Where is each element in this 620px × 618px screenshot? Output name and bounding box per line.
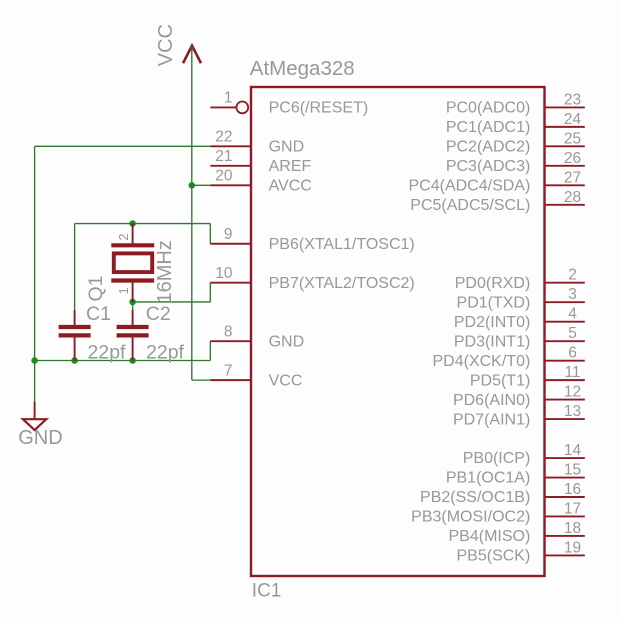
- svg-text:12: 12: [564, 384, 581, 401]
- svg-text:PD3(INT1): PD3(INT1): [454, 333, 530, 350]
- svg-text:27: 27: [564, 169, 581, 186]
- svg-text:Q1: Q1: [85, 275, 107, 301]
- svg-text:2: 2: [116, 233, 131, 240]
- svg-text:PC1(ADC1): PC1(ADC1): [446, 119, 530, 136]
- svg-text:AREF: AREF: [269, 158, 312, 175]
- svg-text:PD1(TXD): PD1(TXD): [457, 294, 531, 311]
- svg-text:3: 3: [568, 286, 577, 303]
- svg-text:8: 8: [224, 323, 233, 340]
- svg-text:VCC: VCC: [155, 24, 177, 66]
- svg-text:PB1(OC1A): PB1(OC1A): [446, 470, 530, 487]
- svg-text:PC5(ADC5/SCL): PC5(ADC5/SCL): [410, 197, 530, 214]
- svg-text:VCC: VCC: [269, 372, 303, 389]
- svg-text:PD4(XCK/T0): PD4(XCK/T0): [433, 353, 531, 370]
- svg-text:21: 21: [215, 148, 232, 165]
- svg-text:22pf: 22pf: [146, 341, 185, 363]
- svg-text:23: 23: [564, 91, 581, 108]
- svg-text:PB7(XTAL2/TOSC2): PB7(XTAL2/TOSC2): [269, 275, 415, 292]
- svg-text:C2: C2: [146, 303, 171, 325]
- svg-text:GND: GND: [269, 333, 305, 350]
- svg-text:6: 6: [568, 345, 577, 362]
- svg-text:PD5(T1): PD5(T1): [470, 372, 530, 389]
- svg-text:4: 4: [568, 306, 577, 323]
- svg-text:AVCC: AVCC: [269, 178, 312, 195]
- svg-text:PC6(/RESET): PC6(/RESET): [269, 100, 369, 117]
- svg-text:15: 15: [564, 462, 581, 479]
- svg-text:7: 7: [224, 362, 233, 379]
- svg-text:19: 19: [564, 539, 581, 556]
- svg-text:22pf: 22pf: [88, 341, 127, 363]
- svg-text:PB0(ICP): PB0(ICP): [463, 450, 531, 467]
- svg-text:22: 22: [215, 129, 232, 146]
- svg-text:PB5(SCK): PB5(SCK): [457, 548, 531, 565]
- svg-text:17: 17: [564, 500, 581, 517]
- svg-text:9: 9: [224, 226, 233, 243]
- svg-text:GND: GND: [269, 139, 305, 156]
- svg-text:PD6(AIN0): PD6(AIN0): [453, 392, 530, 409]
- svg-text:PC3(ADC3): PC3(ADC3): [446, 158, 530, 175]
- svg-text:PB3(MOSI/OC2): PB3(MOSI/OC2): [411, 509, 530, 526]
- svg-text:28: 28: [564, 189, 581, 206]
- svg-text:PB6(XTAL1/TOSC1): PB6(XTAL1/TOSC1): [269, 236, 415, 253]
- svg-text:PD7(AIN1): PD7(AIN1): [453, 411, 530, 428]
- svg-text:25: 25: [564, 130, 581, 147]
- svg-text:PB2(SS/OC1B): PB2(SS/OC1B): [420, 489, 530, 506]
- svg-text:11: 11: [564, 364, 580, 381]
- svg-text:5: 5: [568, 325, 577, 342]
- svg-text:PD2(INT0): PD2(INT0): [454, 314, 530, 331]
- svg-text:10: 10: [215, 265, 233, 282]
- svg-text:AtMega328: AtMega328: [250, 57, 355, 80]
- svg-text:1: 1: [116, 287, 131, 294]
- svg-text:24: 24: [564, 111, 582, 128]
- svg-text:14: 14: [564, 442, 582, 459]
- svg-text:PB4(MISO): PB4(MISO): [449, 528, 531, 545]
- svg-text:PC2(ADC2): PC2(ADC2): [446, 139, 530, 156]
- svg-text:16: 16: [564, 481, 581, 498]
- svg-text:26: 26: [564, 150, 581, 167]
- svg-text:PC4(ADC4/SDA): PC4(ADC4/SDA): [408, 178, 530, 195]
- svg-text:13: 13: [564, 403, 581, 420]
- svg-text:20: 20: [215, 168, 233, 185]
- svg-text:18: 18: [564, 520, 581, 537]
- svg-text:C1: C1: [86, 303, 111, 325]
- svg-text:1: 1: [224, 90, 233, 107]
- svg-text:PC0(ADC0): PC0(ADC0): [446, 100, 530, 117]
- svg-text:GND: GND: [18, 427, 62, 449]
- svg-text:IC1: IC1: [252, 580, 282, 601]
- svg-text:16MHz: 16MHz: [154, 240, 176, 303]
- svg-text:2: 2: [568, 267, 577, 284]
- svg-text:PD0(RXD): PD0(RXD): [455, 275, 531, 292]
